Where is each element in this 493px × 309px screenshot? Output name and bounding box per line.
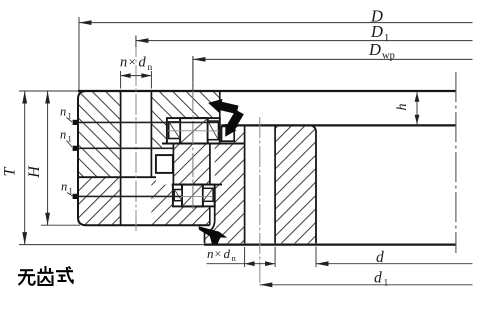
svg-text:d: d (376, 249, 384, 266)
dimension Dwp line (193, 58, 473, 60)
svg-text:1: 1 (384, 33, 389, 44)
inner ring hole left edge (244, 125, 246, 243)
grease hole line n1-2 (73, 147, 173, 149)
upper roller (180, 118, 208, 143)
outer ring split line (78, 176, 156, 178)
inner ring right column (section) (275, 125, 316, 243)
svg-text:n: n (60, 128, 66, 142)
load arrow upper-diagonal (225, 110, 244, 137)
n x dn dimension line (121, 75, 152, 77)
svg-text:T: T (2, 166, 19, 176)
bottom extension line (19, 244, 204, 246)
outer ring lower half (section) (78, 177, 210, 225)
svg-text:n: n (60, 105, 66, 119)
upper roller horizontal centerline (168, 130, 219, 132)
dimension Dwp extension line (192, 56, 194, 91)
bottom n x dn extension lines (244, 247, 246, 267)
outer ring hole right edge (150, 91, 152, 177)
svg-text:1: 1 (384, 279, 389, 289)
svg-text:d: d (139, 55, 147, 71)
svg-text:n: n (120, 55, 127, 71)
roller plug pocket lines (162, 143, 245, 145)
roller centerline (192, 57, 194, 212)
axis centerline (455, 72, 457, 253)
upper left cage piece (169, 122, 180, 139)
inner ring bore edge (309, 125, 316, 243)
outer ring mounting hole (white) (121, 92, 152, 225)
seal boxes at inner ring top-left (222, 126, 235, 141)
svg-text:H: H (26, 165, 43, 179)
svg-text:d: d (374, 270, 382, 287)
grease fitting marker n1-1 (73, 120, 78, 125)
dimension D1 extension tick (135, 36, 137, 48)
dimension D extension line (78, 17, 80, 90)
outer ring hole left edge (120, 91, 122, 225)
tongue left edge (172, 144, 174, 185)
grease hole line n1-1 (73, 121, 219, 123)
lower roller (182, 185, 203, 207)
inner ring tongue between rollers (section) (173, 144, 210, 185)
svg-text:n: n (207, 246, 214, 261)
outer ring upper half (section) (78, 91, 220, 177)
lower roller horizontal centerline (181, 195, 213, 197)
lower raceway cavity (173, 185, 215, 207)
dimension D line (79, 22, 473, 24)
tongue right edge (209, 144, 211, 185)
inner ring left edge and bottom lip (205, 185, 215, 244)
svg-text:h: h (395, 104, 410, 111)
dimension h line (416, 92, 418, 124)
inner ring top line (221, 124, 456, 126)
outer hole centerline (135, 36, 137, 234)
upper raceway cavity (167, 118, 220, 143)
inner hole centerline (259, 117, 261, 286)
svg-text:n: n (61, 180, 67, 194)
svg-text:n: n (148, 63, 153, 73)
svg-text:×: × (215, 247, 222, 261)
outer ring lower right edge (209, 206, 211, 225)
load arrow upper-left (208, 99, 238, 114)
lower right cage piece (203, 188, 213, 201)
n x dn extension ticks (120, 71, 122, 89)
bottom n x dn dimension line (207, 263, 276, 265)
svg-text:wp: wp (382, 51, 395, 62)
H bottom extension line (41, 224, 80, 226)
outer ring top-right gap edge (219, 91, 221, 118)
inner ring strip above raceway (234, 126, 244, 144)
dimension d line (316, 263, 473, 265)
dimension D1 line (136, 40, 473, 42)
svg-text:D: D (370, 22, 383, 41)
tongue bottom / lower cavity top line (172, 184, 222, 186)
plug box (156, 155, 173, 173)
grease fitting marker n1-2 (73, 146, 78, 151)
outer ring outline (78, 91, 210, 225)
upper roller diagonal (181, 119, 208, 143)
dimension T line (24, 91, 26, 245)
dimension H line (47, 91, 49, 225)
load arrow lower (199, 226, 228, 244)
upper right cage piece (208, 121, 219, 140)
top surface extension line (19, 90, 78, 92)
dimension d1 line (260, 284, 473, 286)
grease fitting marker n1-3 (73, 194, 78, 199)
lower left cage piece (174, 190, 182, 201)
inner ring hole right edge (274, 125, 276, 243)
svg-text:×: × (129, 54, 136, 69)
dimension d extension (315, 247, 317, 268)
top surface line (78, 90, 456, 92)
svg-text:D: D (368, 40, 381, 59)
lower roller diagonal (183, 185, 203, 206)
svg-text:d: d (224, 246, 231, 261)
caption: wu chi shi (gearless type) (18, 266, 73, 285)
grease hole line n1-3 (73, 195, 181, 197)
bottom surface line (inner ring bottom) (204, 244, 457, 246)
inner ring left column (section) (205, 144, 245, 244)
